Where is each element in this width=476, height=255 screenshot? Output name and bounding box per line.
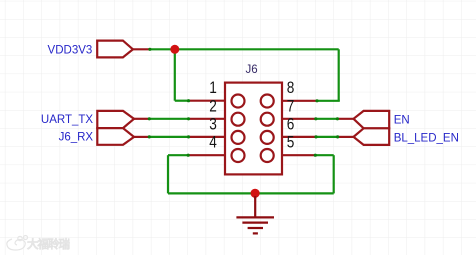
connection dot pin5 end xyxy=(314,154,317,157)
watermark logo xyxy=(7,236,28,251)
svg-text:UART_TX: UART_TX xyxy=(41,114,94,126)
port lead VDD3V3 xyxy=(133,48,150,50)
pin 2 stub xyxy=(189,118,226,120)
wire: junction vertical down to pin 1 xyxy=(174,49,176,100)
pin circle 3 xyxy=(232,131,245,144)
connection dot UART lead end xyxy=(148,117,151,120)
wire: right riser pin 5 to ground rail xyxy=(333,155,335,193)
pin 7 stub xyxy=(282,118,316,120)
svg-text:8: 8 xyxy=(287,78,295,97)
wire: top-right vertical down to pin 8 row xyxy=(338,49,340,101)
port lead J6_RX xyxy=(134,136,149,138)
pin circle 2 xyxy=(232,113,245,126)
wire: pin 6 row green (BL_LED_EN) xyxy=(316,136,338,138)
wire: left riser to ground rail xyxy=(167,155,169,193)
svg-text:大福聆瑞: 大福聆瑞 xyxy=(27,237,69,251)
pin 6 stub xyxy=(282,136,316,138)
pin 1 stub xyxy=(189,100,226,102)
connection dot pin3 end xyxy=(187,135,190,138)
wire: bottom ground rail xyxy=(168,192,334,194)
wire: pin 5 row green xyxy=(315,154,333,156)
connector J6 body xyxy=(225,83,282,175)
svg-text:EN: EN xyxy=(394,114,410,126)
connection dot pin7 end xyxy=(314,117,317,120)
svg-text:6: 6 xyxy=(287,115,295,134)
svg-text:1: 1 xyxy=(209,78,217,97)
wire: pin 8 row horizontal green xyxy=(317,100,340,102)
pin circle 5 xyxy=(261,149,274,162)
ground symbol xyxy=(236,196,274,233)
wire: pin 3 row green (J6_RX) xyxy=(149,136,188,138)
connection dot pin8 end xyxy=(315,99,318,102)
svg-text:VDD3V3: VDD3V3 xyxy=(48,44,93,56)
connection dot pin2 end xyxy=(187,117,190,120)
wire: pin 1 horizontal green xyxy=(175,100,189,102)
pin circle 1 xyxy=(232,95,245,108)
pin circle 8 xyxy=(261,95,274,108)
net port UART_TX xyxy=(97,111,134,128)
net port EN xyxy=(354,111,390,128)
connection dot pin6 end xyxy=(314,135,317,138)
svg-text:J6: J6 xyxy=(246,64,258,76)
port lead EN xyxy=(337,118,353,120)
port lead BL_LED_EN xyxy=(338,136,354,138)
pin 3 stub xyxy=(189,136,226,138)
svg-text:3: 3 xyxy=(209,115,217,134)
connection dot BL lead end xyxy=(336,135,339,138)
junction dot ground node xyxy=(251,189,260,198)
pin circle 6 xyxy=(261,131,274,144)
port lead UART_TX xyxy=(134,118,149,120)
pin 5 stub xyxy=(282,154,315,156)
svg-text:7: 7 xyxy=(287,96,295,115)
net port J6_RX xyxy=(97,128,134,145)
pin circle 4 xyxy=(232,149,245,162)
svg-text:2: 2 xyxy=(209,96,217,115)
junction dot VDD node xyxy=(170,45,179,54)
connection dot VDD lead end xyxy=(148,48,151,51)
wire: pin 7 row green (EN) xyxy=(316,118,338,120)
wire: ground tap tick xyxy=(254,193,256,198)
pin circle 7 xyxy=(261,113,274,126)
connection dot EN lead end xyxy=(336,117,339,120)
wire: pin 4 row green xyxy=(168,154,188,156)
svg-text:J6_RX: J6_RX xyxy=(59,131,94,143)
svg-text:5: 5 xyxy=(287,133,295,152)
pin 4 stub xyxy=(188,154,225,156)
net port BL_LED_EN xyxy=(354,128,390,145)
wire: VDD3V3 top horizontal to corner xyxy=(150,48,339,50)
net port VDD3V3 xyxy=(97,41,133,58)
connection dot pin4 end xyxy=(187,154,190,157)
wire: pin 2 row green (UART_TX) xyxy=(149,118,188,120)
svg-text:4: 4 xyxy=(209,133,217,152)
connection dot J6_RX lead end xyxy=(148,135,151,138)
pin 8 stub xyxy=(282,100,317,102)
svg-text:BL_LED_EN: BL_LED_EN xyxy=(394,133,459,145)
connection dot pin1 end xyxy=(187,99,190,102)
